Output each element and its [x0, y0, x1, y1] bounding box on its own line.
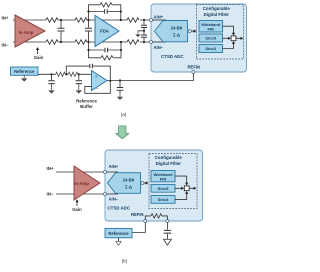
wire feedback top loop (a) [89, 5, 121, 20]
node junction bottom after R1b [60, 41, 62, 43]
node junction top FDA input [87, 19, 89, 21]
pin REFIN (a) [192, 71, 195, 74]
svg-text:IN+: IN+ [2, 15, 9, 20]
svg-text:Σ-Δ: Σ-Δ [125, 184, 132, 189]
wire buffer output to REFIN (a) [107, 74, 193, 81]
svg-text:FIR: FIR [160, 177, 167, 182]
op-amp FDA U2 (a) [95, 15, 119, 46]
wire modulator to filter arrow (b) [144, 182, 146, 184]
svg-text:+: + [95, 74, 98, 79]
wire mux output arrow (a) [236, 37, 241, 39]
mux selector square (a) [231, 36, 236, 41]
resistor R4 feedback bottom (a) [101, 56, 113, 60]
svg-text:FIR: FIR [207, 27, 214, 32]
node buffer output [109, 79, 111, 81]
capacitor C3 feedback top (a) [105, 9, 108, 14]
ground at common-mode caps (a) [138, 31, 144, 32]
svg-text:Digital Filter: Digital Filter [204, 12, 230, 17]
wire reference line (a) [38, 73, 92, 75]
node output cap junction [119, 79, 121, 81]
ground at C10 [117, 94, 124, 100]
resistor R1b bottom input (a) [46, 40, 58, 44]
svg-text:−: − [95, 86, 98, 92]
svg-text:AIN+: AIN+ [109, 164, 119, 169]
wire IN+ line to in-amp and FDA input top (a) [13, 19, 151, 21]
svg-text:Gain: Gain [72, 207, 82, 212]
wire Sinc3 to mux (a) [223, 43, 234, 48]
svg-text:Digital Filter: Digital Filter [156, 161, 182, 166]
svg-text:24-Bit: 24-Bit [123, 177, 135, 182]
configurable digital filter box (b) [149, 154, 197, 209]
ground under reference box (a) [21, 75, 28, 81]
svg-text:Configurable: Configurable [203, 6, 231, 11]
capacitor C9 buffer feedback loop (a) [66, 66, 110, 79]
node ref junction 1 [50, 73, 52, 75]
ground under reference box (b) [118, 238, 120, 242]
wire buffer feedback (a) [85, 81, 111, 94]
capacitor C11 refin to ground (b) [166, 223, 168, 230]
wire IN+ to in-amp (b) [56, 171, 105, 173]
modulator 24-Bit Sigma-Delta pentagon (b) [108, 173, 141, 194]
svg-text:Buffer: Buffer [80, 104, 93, 109]
node feedback bottom joints [87, 49, 89, 51]
wire IN- to in-amp (b) [56, 193, 105, 195]
filter block Sinc5 (b) [151, 184, 175, 192]
pin AIN- (b) [104, 193, 107, 196]
op-amp reference buffer U4 (a) [92, 71, 108, 91]
ADC block U6 CTSD ADC (b) [105, 150, 203, 221]
capacitor C5 common-mode top (a) [143, 20, 145, 31]
pin AIN+ (a) [150, 19, 153, 22]
pin AIN- (a) [150, 41, 153, 44]
resistor R2a top (a) [75, 18, 87, 22]
svg-text:Sinc3: Sinc3 [158, 197, 169, 202]
ADC block U3 CTSD ADC (a) [151, 4, 247, 72]
svg-text:Gain: Gain [34, 55, 44, 60]
svg-text:IN+: IN+ [47, 166, 54, 171]
resistor R7 reference (a) [68, 72, 78, 76]
svg-text:(a): (a) [121, 112, 127, 117]
wire IN- line to in-amp and FDA input bottom (a) [13, 41, 151, 43]
svg-text:AIN−: AIN− [154, 45, 164, 50]
pin REFIN right (b) [166, 220, 169, 223]
node common-mode midpoint [143, 30, 145, 32]
resistor R5a output top (a) [127, 18, 139, 22]
filter block Wideband FIR (a) [199, 21, 223, 33]
node output bottom junction [143, 41, 145, 43]
capacitor C7 to ground (a) [51, 74, 53, 80]
ground at C8 [76, 87, 83, 93]
capacitor C10 to ground (a) [119, 81, 121, 87]
reference source box (b) [105, 228, 132, 237]
reference source box (a) [11, 67, 39, 75]
ground at C7 [48, 87, 55, 93]
transition green arrow [116, 126, 129, 139]
svg-text:Reference: Reference [14, 69, 35, 74]
pin AIN+ (b) [104, 171, 107, 174]
pin REFIN left (b) [144, 220, 147, 223]
wire FIR to mux (a) [223, 26, 234, 33]
resistor R2b bottom (a) [75, 40, 87, 44]
pin modulator output circle (b) [141, 182, 144, 185]
mux selector square (b) [184, 186, 189, 191]
resistor R6 reference (a) [56, 72, 66, 76]
resistor R3 feedback top (a) [100, 3, 112, 7]
node junction top after R1a [60, 19, 62, 21]
wire AIN- to modulator (a) [153, 41, 167, 43]
filter block Sinc3 (a) [199, 45, 223, 53]
svg-text:FDA: FDA [100, 29, 109, 34]
ground at C11 (b) [163, 239, 171, 245]
filter block Wideband FIR (b) [151, 171, 175, 182]
node feedback top joints [87, 10, 89, 12]
svg-text:(b): (b) [122, 259, 128, 264]
in-amp U5 (b) [74, 166, 100, 200]
wire FIR to mux (b) [175, 176, 187, 183]
capacitor C1 differential (a) [60, 20, 62, 42]
configurable digital filter box (a) [197, 5, 244, 60]
capacitor C2 differential (a) [88, 20, 90, 42]
svg-text:Σ-Δ: Σ-Δ [173, 32, 180, 37]
wire Sinc3 to mux (b) [175, 194, 187, 200]
resistor R1a top input (a) [46, 18, 58, 22]
svg-text:REFIN: REFIN [131, 212, 144, 217]
svg-text:Configurable: Configurable [155, 155, 183, 160]
wire reference to REFIN pin (b) [132, 223, 145, 233]
node ref junction 2 [78, 73, 80, 75]
svg-text:Sinc5: Sinc5 [205, 36, 216, 41]
node output top junction [143, 19, 145, 21]
gain arrow (a) [37, 50, 39, 55]
svg-text:Sinc5: Sinc5 [158, 186, 169, 191]
svg-text:In-Amp: In-Amp [74, 181, 89, 186]
svg-text:Reference: Reference [108, 231, 129, 236]
wire AIN- to modulator (b) [107, 193, 119, 195]
capacitor C4 feedback bottom (a) [105, 48, 108, 53]
wire Sinc5 to mux (b) [175, 187, 182, 189]
svg-text:AIN−: AIN− [109, 197, 119, 202]
capacitor C6 common-mode bottom (a) [143, 31, 145, 42]
gain arrow (b) [76, 202, 78, 206]
svg-text:CTSD ADC: CTSD ADC [161, 54, 184, 59]
capacitor C8 to ground (a) [78, 74, 80, 80]
svg-text:REFIN: REFIN [188, 64, 201, 69]
resistor R5b output bottom (a) [127, 40, 139, 44]
svg-text:IN−: IN− [2, 43, 9, 48]
svg-text:CTSD ADC: CTSD ADC [108, 206, 131, 211]
svg-text:IN−: IN− [47, 191, 54, 196]
in-amp U1 (a) [15, 15, 45, 47]
wire Sinc5 to mux (a) [223, 37, 229, 39]
filter block Sinc5 (a) [199, 34, 223, 42]
pin modulator output circle (a) [188, 30, 191, 33]
modulator 24-Bit Sigma-Delta pentagon (a) [155, 21, 188, 42]
wire feedback bottom loop (a) [89, 42, 122, 58]
filter block Sinc3 (b) [151, 196, 175, 204]
svg-text:24-Bit: 24-Bit [171, 25, 183, 30]
resistor R8 internal refin (b) [145, 216, 167, 220]
node ref feedback tap [65, 73, 67, 75]
svg-text:In-Amp: In-Amp [19, 30, 34, 35]
svg-text:Reference: Reference [76, 99, 97, 104]
node junction bottom FDA input [87, 41, 89, 43]
wire AIN+ to modulator (a) [153, 19, 167, 21]
svg-text:Sinc3: Sinc3 [205, 46, 216, 51]
svg-text:AIN+: AIN+ [154, 14, 164, 19]
wire AIN+ to modulator (b) [107, 171, 119, 173]
wire modulator to filter arrow (a) [191, 30, 194, 32]
wire mux output arrow (b) [189, 187, 194, 189]
